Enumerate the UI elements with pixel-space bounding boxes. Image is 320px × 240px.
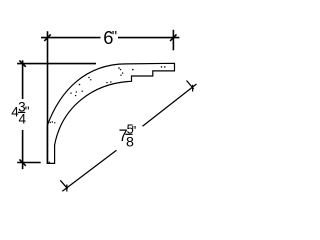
svg-text:": ": [132, 123, 137, 138]
texture dots on molding face: [50, 66, 166, 123]
dimension line 7-5/8-inch upper segment: [143, 84, 197, 126]
crown molding profile outline: [47, 63, 174, 163]
extension line left of 6-inch dimension (also molding back face): [47, 31, 49, 164]
tick lower end of 7-5/8-inch dimension: [66, 185, 68, 192]
extension line right of 6-inch dimension: [172, 30, 174, 51]
dimension line 6-inch left segment: [41, 37, 101, 39]
svg-text:": ": [25, 104, 30, 119]
tick left end of 6-inch dimension: [44, 34, 50, 41]
extension line bottom of 4-3/4-inch dimension: [17, 162, 41, 164]
tick bottom end of 4-3/4-inch dimension: [19, 159, 25, 165]
dimension line 4-3/4-inch lower segment: [22, 130, 24, 169]
extension line top of 4-3/4-inch dimension: [17, 63, 96, 65]
dimension line 4-3/4-inch upper segment: [22, 60, 24, 99]
dimension line 7-5/8-inch lower segment: [62, 150, 116, 191]
svg-text:": ": [112, 28, 117, 45]
extension slash lower end of 7-5/8-inch dimension: [60, 180, 67, 188]
tick top end of 4-3/4-inch dimension: [19, 60, 25, 66]
notch in molding bottom edge: [48, 162, 50, 164]
tick upper end of 7-5/8-inch dimension: [192, 85, 194, 92]
extension slash upper end of 7-5/8-inch dimension: [187, 81, 194, 89]
dimension line 6-inch right segment: [118, 37, 179, 39]
tick right end of 6-inch dimension: [170, 34, 176, 41]
